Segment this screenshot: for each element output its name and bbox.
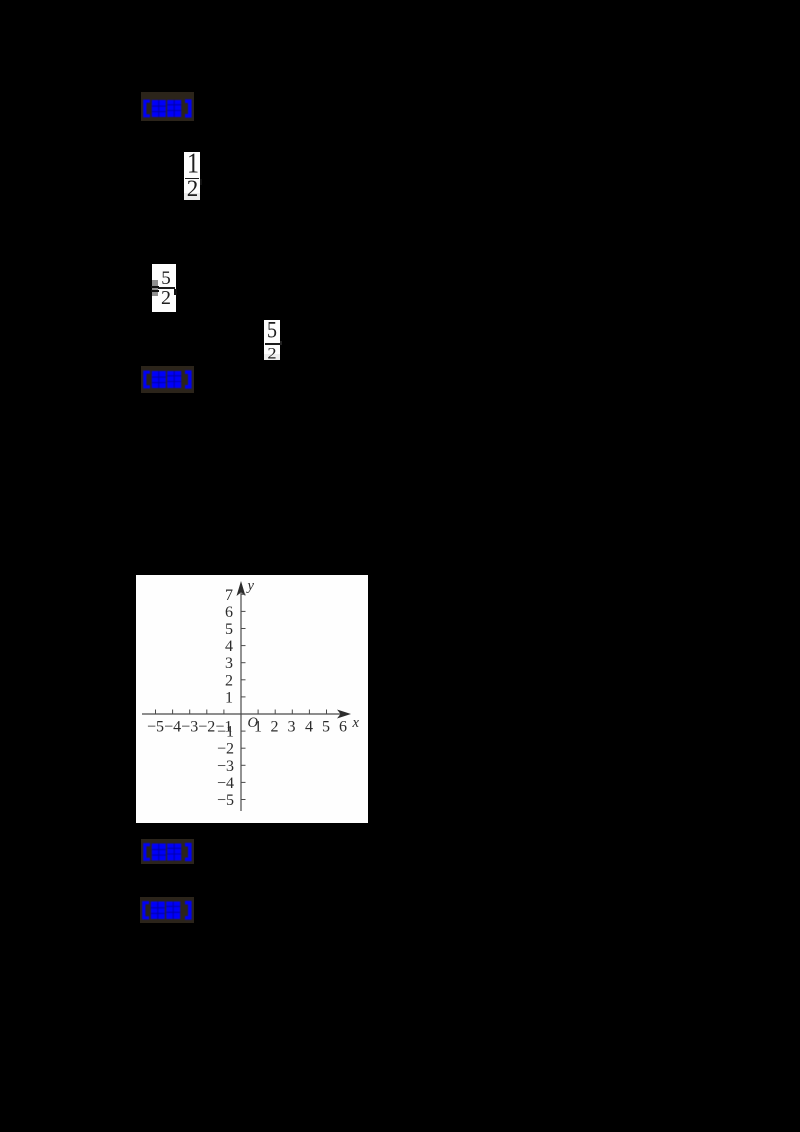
svg-text:7: 7 — [225, 587, 233, 604]
svg-text:4: 4 — [225, 638, 233, 655]
svg-text:1: 1 — [225, 689, 233, 706]
label badge 2 — [141, 366, 194, 393]
svg-text:y: y — [246, 578, 255, 594]
svg-text:6: 6 — [225, 604, 233, 621]
svg-text:3: 3 — [225, 655, 233, 672]
svg-text:O: O — [248, 715, 259, 731]
svg-text:x: x — [352, 715, 360, 731]
svg-text:−3: −3 — [217, 758, 234, 775]
fraction 5/2 white box — [264, 320, 280, 360]
label badge 4 — [140, 897, 194, 923]
svg-text:−5: −5 — [147, 719, 164, 736]
svg-text:−3: −3 — [181, 719, 198, 736]
svg-text:−1: −1 — [215, 719, 232, 736]
svg-text:2: 2 — [225, 672, 233, 689]
svg-text:−4: −4 — [164, 719, 181, 736]
svg-text:−2: −2 — [198, 719, 215, 736]
coordinate-plane image — [136, 575, 368, 823]
svg-text:4: 4 — [305, 719, 313, 736]
fraction 1/2 white box — [184, 152, 200, 200]
label badge 1 — [141, 92, 194, 121]
svg-text:−5: −5 — [217, 792, 234, 809]
svg-text:5: 5 — [225, 621, 233, 638]
svg-text:6: 6 — [339, 719, 347, 736]
fraction =5/2 white box — [152, 264, 176, 312]
svg-text:3: 3 — [288, 719, 296, 736]
label badge 3 — [141, 839, 194, 864]
svg-text:−2: −2 — [217, 741, 234, 758]
svg-text:−4: −4 — [217, 775, 234, 792]
svg-text:2: 2 — [271, 719, 279, 736]
svg-text:5: 5 — [322, 719, 330, 736]
